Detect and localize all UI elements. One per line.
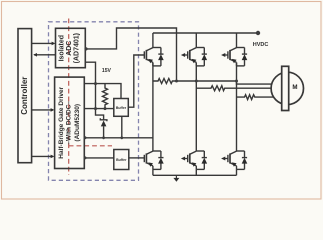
svg-text:Isolated: Isolated [58,35,65,61]
buffer U4 box (low side) [114,150,129,170]
arrow into ADC [52,42,56,46]
node floating rail / buffer return [120,136,123,139]
wire high-side floating return rail [84,137,153,139]
node ADC sense output [84,47,87,50]
svg-text:ADC: ADC [66,41,73,56]
gate stub Q3 [225,54,228,56]
resistor R1 (gate supply) vertical [103,84,108,109]
svg-text:HVDC: HVDC [253,42,269,48]
wire driver low-side output to buffer U4 [84,157,114,159]
svg-text:15V: 15V [102,68,112,74]
transistor Q5 (IGBT, bottom leg 2) with freewheel diode D6 [188,151,207,169]
node sense tap on phase A row [175,80,178,83]
freewheel diode cathode bar [158,53,163,55]
wire buffer U3 bottom to floating rail [121,116,123,138]
gate bar [143,51,145,58]
wire low-side emitter rail (bus return) [153,174,237,176]
wire collector drop leg 1 [152,33,154,48]
arrowheads on control wires [33,42,55,159]
freewheel diode triangle [158,54,164,60]
body bar [145,50,147,60]
wire collector drop leg 3 [236,33,238,48]
wire emitter drop leg 3 [236,169,238,175]
svg-text:Controller: Controller [20,77,29,115]
emitter arrow [148,59,153,63]
wire HVDC positive rail [153,32,258,34]
wire emitter drop leg 2 [195,169,197,175]
arrow into driver (low-side) [51,155,55,159]
svg-text:M: M [292,84,297,91]
svg-text:Half-Bridge Gate Driver: Half-Bridge Gate Driver [58,86,65,158]
wire 15V node down to gate line [95,84,97,109]
transistor Q1 (IGBT, top leg 1) with freewheel diode D2 [144,48,163,66]
svg-text:(ADuM5230): (ADuM5230) [74,104,81,142]
controller box [18,29,32,163]
isolated ADC U1 box [56,28,86,67]
wire phase C row with resistor R4 [237,95,274,100]
node floating rail at driver pin [84,136,87,139]
zener diode D1 anode to floating rail [103,126,105,138]
node HVDC terminal [256,31,260,35]
wire ADC lower to 15V node [85,62,95,83]
transistor Q2 (IGBT, top leg 2) with freewheel diode D3 [188,48,207,66]
node 15V rail junction [94,82,97,85]
collector lead [146,48,153,51]
isolation barrier red dashed vertical line [68,19,70,176]
wire phase A jog to motor [237,81,272,84]
wire controller to driver (low-side PWM) [32,155,53,157]
node phase A row crossing leg 2 [195,80,198,83]
wire phase A vertical (leg 1) [152,63,154,152]
freewheel diode cathode lead [160,48,162,54]
wire ADC sense line to phase shunt [85,28,176,81]
arrow into driver (high-side) [51,108,55,112]
wire 15V rail [84,84,121,99]
wire phase B vertical (leg 2) [195,63,197,152]
svg-text:Buffer: Buffer [116,106,127,110]
gate stub Q6 [225,158,228,160]
wire controller to ADC (clock) [32,42,54,44]
gate stub arrows for legs 2,3 top [181,53,228,161]
buffer U3 box (high side) [114,99,129,117]
node driver low-side output [84,156,87,159]
label Half-Bridge Gate Driver With DC/DC (ADuM5230) [58,86,81,158]
node phase A row at leg 3 [235,80,238,83]
node gate line / resistor bottom [104,107,107,110]
node gate line / zener branch [94,107,97,110]
wire controller to driver (high-side PWM) [32,109,53,111]
wire phase C vertical (leg 3) [236,63,238,152]
emitter corner [152,62,154,66]
transistor Q3 (IGBT, top leg 3) with freewheel diode D4 [228,48,247,66]
wire buffer U4 output to Q4 gate [129,157,145,159]
ground symbol [173,175,179,182]
zener diode D1 branch jog [96,109,104,120]
gate stub Q5 [184,158,187,160]
zener diode D1 cathode bar [100,118,107,121]
wire ADC to controller (data) [34,54,56,56]
motor M1 [271,66,303,110]
wire phase B row with resistor R3 [196,86,271,91]
transistor Q4 (IGBT, bottom leg 1) with freewheel diode D5 [144,151,163,169]
emitter node link [153,65,161,67]
freewheel diode anode lead [160,60,162,66]
wire buffer U3 output to Q1 gate riser [128,55,144,107]
collector node link [153,47,161,49]
zener diode D1 triangle [101,121,107,127]
gate stub Q2 [184,54,187,56]
isolation boundary dashed box (gate-drive isolation region) [49,22,139,181]
wire emitter drop leg 1 [152,169,154,175]
transistor Q6 (IGBT, bottom leg 3) with freewheel diode D7 [228,151,247,169]
node floating rail / zener anode [102,136,105,139]
label Isolated ADC (AD7401) [58,33,80,63]
svg-text:(AD7401): (AD7401) [74,33,81,63]
arrow into controller [33,53,37,57]
wire phase A row with shunt resistor R2 [153,79,237,84]
emitter lead [146,59,153,62]
svg-text:Buffer: Buffer [116,158,127,162]
isolation barrier red dashed horizontal line [69,145,112,147]
wire driver high-side output to buffer input [84,108,114,110]
wire collector drop leg 2 [195,33,197,48]
svg-text:–With DC/DC–: –With DC/DC– [66,101,73,145]
gate driver U2 box [55,77,85,168]
